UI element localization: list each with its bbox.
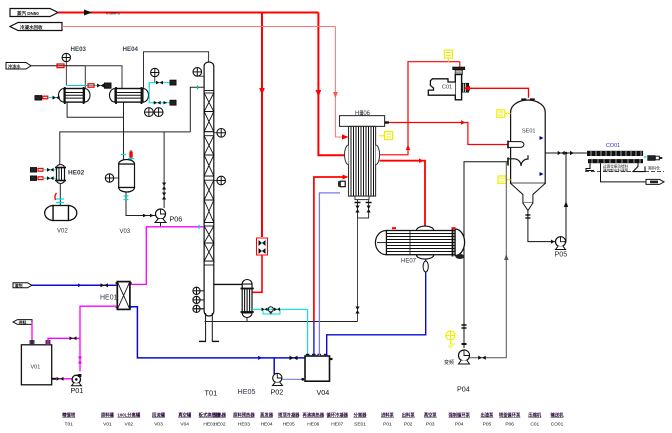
svg-text:V02: V02 — [57, 229, 68, 235]
yellow tag C01 line — [444, 50, 452, 62]
wire magenta recirc to V01 top — [48, 336, 80, 344]
vent assembly above HE03 right (red ring, valve, box) — [66, 83, 111, 88]
svg-text:强制循环泵: 强制循环泵 — [448, 412, 470, 419]
stream flag IN5 (fresh feed) — [13, 319, 32, 325]
wire HE03 bottom to HE04 downcomer — [67, 103, 123, 118]
heat exchanger HE06 (vertical shell and tube) — [340, 111, 385, 200]
valve group on red line x262 — [257, 238, 268, 255]
wire red HE06 right bulge to C01 riser — [380, 62, 460, 155]
stream flag IN4 (solvent) — [13, 282, 32, 288]
stream flag IN2 (condensate return) — [10, 23, 62, 31]
yellow tag SE01 bottom — [498, 176, 511, 184]
svg-text:HE03: HE03 — [238, 422, 250, 428]
heat exchanger HE07 — [375, 226, 464, 259]
svg-text:HE04: HE04 — [261, 422, 273, 428]
wire HE06 bottom drains — [355, 200, 372, 322]
svg-text:V02: V02 — [125, 422, 134, 428]
svg-text:HE03: HE03 — [71, 46, 87, 53]
wire header y132 (HE02 riser to reflux riser) — [60, 132, 191, 165]
wire red HE06 shell out to HE07 (thick) — [380, 158, 426, 226]
svg-text:P02: P02 — [271, 388, 284, 397]
instrument V03 left — [105, 174, 118, 182]
svg-text:精馏塔: 精馏塔 — [62, 412, 76, 419]
heat exchanger HE03 — [59, 87, 91, 104]
wire P04 discharge up to SE01 elbow — [470, 162, 509, 360]
svg-text:冷凝水回收: 冷凝水回收 — [20, 24, 43, 31]
wire blue V04 riser from red line — [313, 322, 315, 357]
svg-text:冷冻水: 冷冻水 — [8, 63, 21, 70]
instrument column right 1 — [214, 129, 226, 138]
nozzle SE01 lower (elbow) — [508, 155, 528, 166]
svg-text:P06: P06 — [170, 215, 183, 224]
svg-text:输送机: 输送机 — [551, 412, 565, 419]
svg-text:HE04: HE04 — [123, 46, 139, 53]
svg-text:溶剂: 溶剂 — [15, 282, 23, 288]
svg-text:P06: P06 — [505, 422, 514, 428]
wire steam corner x318 down to HE06 left bulge — [316, 13, 345, 156]
svg-text:HE01: HE01 — [100, 295, 118, 302]
heat exchanger HE05 — [241, 280, 254, 318]
wire CO01 to product flag — [601, 163, 647, 182]
wire condensate (thin red) — [62, 26, 335, 28]
wire steam branch at x262 (thick red vertical) — [259, 13, 265, 238]
svg-text:SE01: SE01 — [522, 129, 535, 135]
svg-text:100L分离罐: 100L分离罐 — [117, 412, 140, 419]
wire flag3 to HE03/HE04 tops — [31, 64, 122, 88]
stream flag IN3 (cooling water) — [6, 63, 31, 70]
svg-text:回流罐: 回流罐 — [152, 412, 166, 419]
svg-text:V04: V04 — [317, 388, 330, 397]
stream flag OUT (product) — [646, 179, 664, 184]
svg-text:分离器: 分离器 — [354, 412, 368, 419]
svg-text:P01: P01 — [383, 422, 392, 428]
valve inlet HE02 upper (box, red ring, valve) — [31, 168, 57, 172]
pump P04 — [444, 344, 470, 366]
svg-text:P05: P05 — [555, 250, 568, 259]
vessel V02 (horizontal drum) — [45, 206, 77, 221]
svg-text:真空罐: 真空罐 — [178, 412, 192, 419]
wire red HE06 top right to SE01 nozzle1 — [385, 120, 508, 144]
svg-text:P04: P04 — [457, 385, 470, 394]
column T01 skirt — [199, 313, 219, 341]
wire V01 outlet to P01 — [52, 377, 73, 381]
heat exchanger HE04 — [110, 87, 149, 104]
wire blue HE07 bottom to V04 — [327, 259, 429, 357]
wire collector (column bottom to HE06 drain) — [205, 321, 358, 323]
wire blue HE06 lower left to V04 — [319, 193, 340, 356]
instrument yellow P04 — [446, 331, 455, 348]
instrument column left stack (3) — [193, 287, 204, 312]
svg-text:SE01: SE01 — [354, 422, 366, 428]
svg-text:V01: V01 — [103, 422, 112, 428]
svg-text:进料: 进料 — [19, 319, 27, 325]
svg-text:预热器: 预热器 — [213, 412, 227, 419]
wire P02 to V04 bottom — [282, 378, 304, 381]
svg-text:V04: V04 — [180, 422, 189, 428]
stream flag IN1 (steam inlet) — [10, 9, 58, 17]
svg-text:CO01: CO01 — [551, 422, 564, 428]
instrument pair below HE04 right — [145, 108, 164, 117]
wire blue inlet to HE01 — [32, 283, 117, 287]
wire blue HE01 right to V04 — [130, 307, 305, 360]
svg-text:C01: C01 — [530, 422, 539, 428]
svg-text:真空泵: 真空泵 — [424, 412, 438, 419]
svg-text:再沸换热器: 再沸换热器 — [303, 412, 325, 419]
conveyor CO01 — [585, 151, 664, 173]
wire reflux riser into column — [190, 85, 204, 132]
svg-text:寄料仓: 寄料仓 — [648, 165, 660, 171]
svg-text:出渣泵: 出渣泵 — [480, 412, 494, 419]
svg-text:P01: P01 — [71, 386, 84, 395]
instrument column right 2 — [214, 176, 226, 185]
wire HE04 bottom to V03 — [121, 103, 126, 161]
svg-text:T01: T01 — [65, 422, 74, 428]
svg-text:原料预热器: 原料预热器 — [233, 412, 255, 419]
wire column side draw to HE05 — [214, 283, 242, 285]
svg-text:P03: P03 — [426, 422, 435, 428]
wire SE01 elbow line to P04 suction — [462, 162, 509, 348]
valve inlet HE03 left (box, red ring, cyan line) — [35, 96, 60, 100]
wire red HE06 mid inlet riser from V04 — [314, 175, 349, 322]
instrument above HE04 right — [151, 68, 159, 82]
svg-text:HE02: HE02 — [214, 422, 226, 428]
nozzle SE01 upper (straight) — [508, 141, 524, 149]
svg-text:P05: P05 — [483, 422, 492, 428]
equipment legend table — [62, 412, 564, 419]
column T01 packing sections — [204, 91, 214, 266]
yellow tag SE01 top — [497, 110, 511, 118]
svg-text:变频: 变频 — [444, 359, 454, 366]
tank V04 — [305, 355, 333, 382]
svg-text:HE07: HE07 — [401, 259, 417, 265]
tank V01 — [21, 341, 51, 385]
svg-text:P04: P04 — [455, 422, 464, 428]
heat exchanger HE02 — [55, 165, 66, 184]
svg-text:HE06: HE06 — [307, 422, 319, 428]
vent line HE04 top (cyan, valve, box) — [149, 80, 176, 87]
wire red C01 suction from SE01 — [464, 86, 529, 98]
svg-text:HE07: HE07 — [331, 422, 343, 428]
instrument TI above HE03 — [62, 53, 70, 85]
wire steam main (thick red) — [58, 10, 318, 16]
wire red to HE05 — [252, 255, 262, 292]
svg-text:HE05: HE05 — [238, 387, 256, 396]
pump P02 — [273, 358, 283, 386]
wire HE02 to V02 — [55, 184, 64, 206]
pump P06 — [155, 209, 166, 223]
relief stub on V03 top — [128, 150, 134, 161]
svg-text:塔釜循环泵: 塔釜循环泵 — [499, 412, 521, 419]
vessel V03 — [119, 159, 135, 192]
svg-text:V03: V03 — [154, 422, 163, 428]
wire SE01 right to CO01 — [545, 151, 587, 155]
wire HE04 to column top — [144, 52, 209, 88]
svg-text:压缩机: 压缩机 — [528, 412, 542, 419]
pump P05 — [556, 237, 566, 250]
svg-text:0.8MPa: 0.8MPa — [106, 11, 121, 16]
svg-text:CO01: CO01 — [606, 143, 620, 149]
svg-text:V01: V01 — [31, 365, 41, 371]
wire P06 discharge to feed line — [160, 223, 162, 227]
svg-text:蒸汽 DN50: 蒸汽 DN50 — [17, 10, 39, 17]
wire HE05 bottom to collector line — [246, 318, 248, 322]
svg-text:V03: V03 — [120, 229, 131, 235]
svg-text:进料泵: 进料泵 — [381, 412, 395, 419]
svg-text:C01: C01 — [442, 85, 452, 91]
heat exchanger HE01 (plate) — [116, 282, 132, 310]
wire P05 discharge riser — [564, 153, 568, 243]
svg-text:出料泵: 出料泵 — [402, 412, 416, 419]
wire SE01 cone to P05 — [525, 211, 558, 244]
nozzle HE06 lower left — [339, 181, 345, 187]
separator SE01 — [511, 99, 546, 210]
instrument column top left — [193, 68, 204, 77]
svg-text:塔顶冷凝器: 塔顶冷凝器 — [278, 412, 300, 419]
svg-text:循环冷凝器: 循环冷凝器 — [326, 412, 348, 419]
column T01 shell — [204, 62, 214, 316]
svg-text:P02: P02 — [404, 422, 413, 428]
wire V03 bottom to P06 — [124, 192, 157, 217]
pump P01 — [72, 374, 82, 386]
svg-text:T01: T01 — [205, 389, 218, 398]
motor CO01 right — [647, 155, 662, 170]
wire thin red down to HE06 tubes — [333, 27, 349, 140]
wire cyan HE05 outlet with bypass to V04 — [252, 307, 308, 356]
wire magenta flag5 down to V01 — [30, 322, 35, 345]
svg-text:蒸发器: 蒸发器 — [259, 412, 274, 419]
wire branch to P06 with valves — [162, 132, 166, 208]
yellow tag HE06 — [379, 132, 393, 140]
wire magenta HE01 left to P01 riser — [78, 306, 117, 371]
svg-text:HE02: HE02 — [68, 170, 85, 177]
valve inlet HE02 lower (box, red ring, valve) — [31, 176, 57, 180]
drain line HE04 right (cyan, valve, box) — [149, 83, 176, 106]
wire magenta feed (HE01 to column) — [130, 225, 204, 285]
svg-text:HE05: HE05 — [283, 422, 295, 428]
compressor C01 — [428, 62, 468, 100]
svg-text:原料罐: 原料罐 — [101, 412, 115, 419]
